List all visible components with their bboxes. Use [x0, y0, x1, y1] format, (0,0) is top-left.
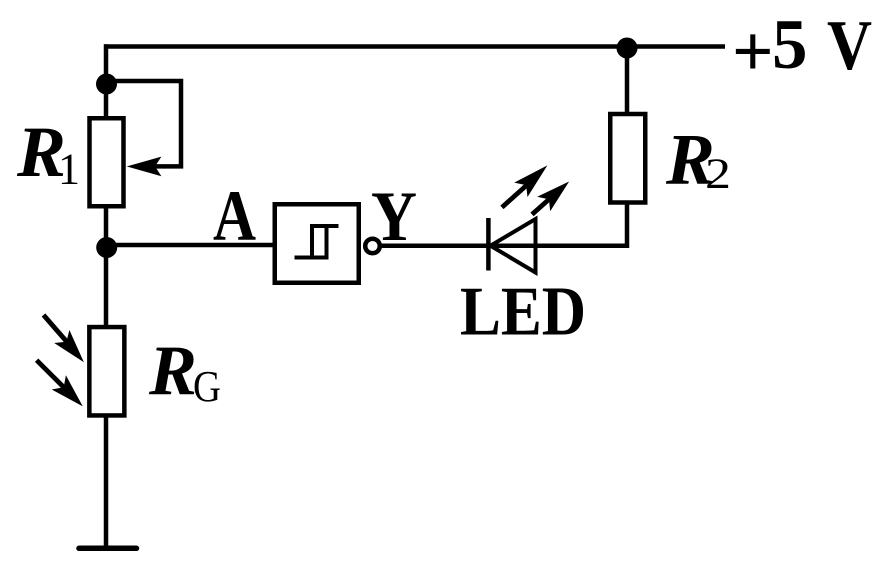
photoresistor light arrow 1 [44, 315, 84, 362]
LED emission arrow 2 [532, 182, 569, 215]
wire top +5V rail [104, 44, 725, 49]
LED cathode bar [486, 218, 491, 271]
ground [79, 546, 137, 552]
svg-text:A: A [213, 176, 256, 256]
svg-text:R: R [148, 332, 197, 410]
wire R1 bottom to RG top [104, 206, 109, 327]
node junction dot2 node A [96, 237, 117, 258]
resistor RG photoresistor body [89, 327, 124, 415]
wire R2 top to +5V rail [625, 46, 630, 114]
wire gate output to R2 bottom [381, 203, 627, 246]
svg-text:V: V [827, 7, 872, 85]
resistor R1 body [90, 118, 124, 206]
LED emission arrow 1 [502, 165, 548, 207]
svg-text:G: G [193, 362, 221, 411]
wire wiper feedback loop [106, 81, 181, 166]
wire RG bottom to ground [104, 415, 109, 548]
svg-text:2: 2 [705, 151, 731, 198]
svg-text:5: 5 [772, 6, 808, 84]
wire left rail from top rail to R1 [104, 44, 109, 118]
node junction dot3 on +5V rail [617, 38, 638, 59]
svg-text:+: + [732, 11, 774, 92]
node junction dot1 R1 top [96, 74, 117, 95]
resistor R2 body [610, 114, 645, 203]
photoresistor light arrow 2 [37, 360, 83, 406]
LED triangle [491, 219, 536, 273]
svg-text:LED: LED [460, 274, 586, 351]
hysteresis symbol [295, 226, 339, 258]
wire node A to gate input [106, 243, 275, 248]
svg-text:1: 1 [58, 145, 80, 194]
op-amp U1 schmitt trigger inverter box [275, 204, 359, 283]
potentiometer wiper arrowhead [127, 157, 162, 177]
inverter output bubble [365, 239, 380, 254]
